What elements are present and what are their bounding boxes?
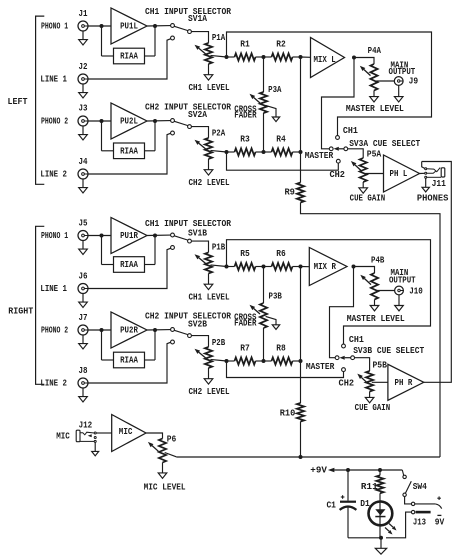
switch SW4 contact 2	[403, 493, 406, 496]
switch SV1B common	[188, 239, 192, 243]
potentiometer P6 (mic level)	[159, 439, 166, 463]
op-amp PU1L	[111, 8, 147, 44]
wire	[94, 442, 96, 451]
wire	[405, 497, 412, 504]
svg-text:P5A: P5A	[367, 149, 382, 160]
svg-text:R3: R3	[240, 134, 250, 145]
svg-text:CH1 LEVEL: CH1 LEVEL	[189, 82, 230, 93]
capacitor C1	[340, 501, 356, 503]
P5A wiper arrow	[355, 165, 361, 171]
wire	[191, 336, 208, 347]
P4A wiper arrow	[364, 70, 371, 76]
wire	[88, 39, 171, 79]
wire	[147, 25, 171, 27]
op-amp MIC	[112, 415, 146, 452]
node CH2 cue contact	[342, 368, 346, 372]
svg-text:J7: J7	[79, 312, 88, 323]
ground	[204, 170, 213, 175]
wire	[348, 149, 364, 158]
node crossfader junction	[262, 265, 266, 269]
svg-text:CH1: CH1	[349, 334, 364, 345]
ground	[82, 126, 84, 135]
svg-text:CH2: CH2	[339, 378, 355, 389]
svg-text:R9: R9	[284, 187, 295, 198]
ground	[422, 187, 429, 192]
RIAA feedback network PU2R	[114, 352, 145, 368]
P1A wiper	[211, 55, 227, 57]
P2A wiper	[211, 150, 227, 152]
wire	[263, 113, 265, 152]
jack J9 (main output)	[394, 77, 403, 86]
P1B wiper arrow	[199, 258, 206, 264]
ground (supply)	[375, 548, 386, 554]
battery connector J13 + contact	[411, 502, 414, 505]
svg-text:MIC: MIC	[119, 426, 133, 437]
svg-text:C1: C1	[326, 499, 336, 510]
resistor R9	[297, 183, 304, 203]
wire	[191, 241, 208, 252]
label - (battery)	[437, 514, 441, 516]
switch SV1A common	[188, 30, 192, 34]
ground	[272, 325, 279, 330]
P2A wiper arrow	[199, 143, 206, 149]
svg-text:MASTER LEVEL: MASTER LEVEL	[346, 103, 404, 114]
switch SV2A contact 1	[171, 119, 175, 123]
node output PU2R	[153, 328, 157, 332]
node CH1 cue contact	[336, 136, 340, 140]
LED D1	[369, 502, 393, 526]
op-amp PH L	[384, 155, 420, 192]
svg-text:MIX R: MIX R	[314, 261, 337, 272]
node MIX R output	[352, 265, 356, 269]
ground	[204, 75, 213, 80]
svg-text:R7: R7	[240, 343, 250, 354]
node output PU1L	[153, 24, 157, 28]
potentiometer P2B	[205, 347, 212, 368]
resistor R1	[235, 53, 256, 60]
ground	[82, 31, 84, 40]
svg-text:PU1R: PU1R	[120, 230, 138, 241]
wire	[191, 127, 208, 138]
jack J10 (main output)	[395, 286, 404, 295]
node wiper junction	[225, 265, 229, 269]
node master bus	[299, 265, 303, 269]
P6 wiper arrow	[152, 446, 158, 452]
svg-text:J13: J13	[413, 516, 426, 527]
svg-text:PHONO 2: PHONO 2	[41, 116, 68, 127]
wire	[380, 538, 382, 549]
wire	[293, 360, 301, 362]
node input PU1L	[100, 24, 104, 28]
wire	[264, 266, 272, 268]
wire (CH1 cue feed)	[227, 32, 432, 136]
wire	[256, 151, 264, 153]
svg-text:SV1B: SV1B	[188, 228, 207, 239]
D1 diode	[375, 509, 385, 515]
switch SV2B contact 2	[171, 340, 175, 344]
ground	[370, 306, 379, 311]
node C1 tap	[346, 468, 350, 472]
svg-text:RIGHT: RIGHT	[8, 306, 33, 317]
P3A wiper arrow	[254, 97, 260, 103]
ground	[204, 284, 213, 289]
wire	[256, 56, 264, 58]
resistor R3	[235, 148, 256, 155]
wire	[300, 422, 302, 458]
wire	[191, 32, 208, 43]
wire	[386, 512, 411, 538]
switch SW4 blade	[405, 481, 411, 493]
switch SV1A blade	[174, 26, 188, 30]
ground	[92, 451, 99, 455]
switch SV3A contact MASTER	[329, 147, 333, 151]
node CH1 cue contact	[342, 344, 346, 348]
node wiper junction	[225, 359, 229, 363]
svg-text:J6: J6	[79, 271, 88, 282]
wire	[263, 57, 265, 92]
jack J11 contact 1	[425, 168, 427, 170]
switch SV3B blade	[345, 357, 351, 359]
wire	[264, 56, 272, 58]
svg-text:PHONO 1: PHONO 1	[41, 230, 69, 241]
svg-text:P3B: P3B	[269, 291, 283, 302]
P4A wiper	[376, 80, 394, 82]
node master bus	[299, 55, 303, 59]
ground	[365, 397, 374, 402]
wire	[145, 55, 156, 57]
svg-text:D1: D1	[360, 498, 370, 509]
svg-text:SV2A: SV2A	[188, 109, 207, 120]
svg-text:P2A: P2A	[212, 128, 226, 139]
potentiometer P3B (cross fader)	[260, 303, 267, 328]
C1 plus sign	[341, 496, 345, 498]
wire	[145, 359, 156, 361]
jack J11 ring spring	[427, 171, 436, 173]
P1B wiper	[211, 265, 227, 267]
wire	[101, 26, 103, 56]
wire	[208, 159, 210, 170]
ground	[204, 379, 213, 384]
wire	[88, 329, 111, 331]
node mic bus	[299, 455, 303, 459]
resistor R5	[235, 263, 256, 270]
wire	[101, 236, 103, 265]
wire (+9V rail)	[334, 469, 402, 471]
P3B wiper	[266, 316, 276, 324]
resistor R6	[272, 263, 293, 270]
wire	[208, 64, 210, 75]
resistor R8	[272, 357, 293, 364]
node wiper junction	[225, 150, 229, 154]
svg-text:CUE GAIN: CUE GAIN	[350, 192, 386, 203]
potentiometer P1B	[205, 252, 212, 273]
node output PU2L	[153, 119, 157, 123]
wire	[264, 151, 272, 153]
jack J12 contact 3	[94, 440, 96, 442]
wire	[263, 267, 265, 304]
group bracket LEFT	[36, 16, 45, 184]
wire	[398, 295, 400, 306]
node master bus	[299, 359, 303, 363]
wire	[300, 361, 302, 403]
switch SV2B contact 1	[171, 328, 175, 332]
node CH2 cue contact	[336, 159, 340, 163]
svg-text:P1A: P1A	[212, 32, 226, 43]
wire (master cue feed)	[330, 267, 354, 358]
ground	[395, 306, 404, 311]
wire (master bus left)	[300, 57, 302, 152]
svg-text:CH2 LEVEL: CH2 LEVEL	[189, 386, 230, 397]
svg-text:R11: R11	[361, 481, 378, 492]
resistor R11	[376, 475, 383, 493]
svg-text:MASTER: MASTER	[306, 361, 335, 372]
svg-text:PH L: PH L	[390, 168, 408, 179]
switch SV3A blade	[339, 148, 344, 150]
wire	[373, 91, 375, 97]
svg-text:R1: R1	[240, 39, 250, 50]
P4B wiper arrow	[364, 279, 371, 285]
jack J11 contact 3	[425, 176, 427, 178]
wire	[301, 56, 311, 58]
svg-text:RIAA: RIAA	[120, 145, 138, 156]
switch SV3B common	[351, 356, 355, 360]
wire	[293, 151, 301, 153]
svg-text:R4: R4	[276, 134, 286, 145]
svg-text:PU2L: PU2L	[120, 116, 138, 127]
jack J11 tip path	[422, 162, 425, 169]
potentiometer P3A (cross fader)	[260, 92, 267, 113]
wire	[227, 56, 235, 58]
jack J8 (line input)	[78, 378, 88, 388]
svg-text:9V: 9V	[435, 516, 445, 527]
wire	[379, 470, 381, 475]
svg-text:PU2R: PU2R	[120, 325, 138, 336]
wire	[355, 358, 370, 371]
svg-text:LINE 1: LINE 1	[40, 283, 67, 294]
svg-text:MIC LEVEL: MIC LEVEL	[144, 481, 186, 492]
svg-text:J3: J3	[79, 103, 88, 114]
wire	[145, 150, 156, 152]
node master bus	[299, 150, 303, 154]
wire	[227, 151, 235, 153]
P6 wiper	[165, 453, 177, 457]
P4B wiper	[377, 290, 395, 292]
wire	[369, 392, 371, 398]
wire	[301, 266, 310, 268]
wire (master bus right)	[300, 267, 302, 362]
svg-text:PU1L: PU1L	[120, 21, 138, 32]
svg-text:SV1A: SV1A	[188, 13, 207, 24]
wire	[293, 266, 301, 268]
jack J1	[78, 21, 88, 31]
wire	[379, 493, 381, 538]
node LED ground junction	[379, 536, 383, 540]
svg-text:P6: P6	[167, 433, 177, 444]
wire	[88, 342, 171, 383]
svg-text:CH1 LEVEL: CH1 LEVEL	[189, 291, 230, 302]
op-amp PU2R	[111, 312, 147, 348]
wire	[354, 58, 374, 65]
ground	[158, 473, 167, 478]
wire	[162, 463, 164, 473]
group bracket RIGHT	[36, 226, 45, 384]
P5B wiper arrow	[361, 377, 367, 383]
svg-text:PHONO 2: PHONO 2	[41, 325, 68, 336]
wire	[227, 266, 235, 268]
wire	[347, 470, 349, 501]
wire	[96, 432, 112, 434]
node R11 tap	[378, 468, 382, 472]
svg-text:P3A: P3A	[268, 84, 282, 95]
wire	[256, 360, 264, 362]
ground	[370, 97, 379, 102]
wire	[147, 120, 171, 122]
wire	[293, 56, 301, 58]
wire	[354, 267, 375, 274]
jack J12 contact 2	[94, 437, 96, 439]
wire	[101, 121, 103, 151]
P3A wiper	[266, 105, 276, 117]
jack J2 (line input)	[78, 74, 88, 84]
jack J11 plug	[441, 168, 445, 177]
jack J7	[78, 325, 88, 335]
svg-text:P1B: P1B	[212, 241, 226, 252]
svg-text:R2: R2	[276, 39, 286, 50]
switch SV2A common	[188, 125, 192, 129]
P5A wiper	[365, 173, 383, 175]
jack J12 contact 1	[94, 432, 96, 434]
wire	[256, 266, 264, 268]
ground	[82, 84, 84, 93]
op-amp PU1R	[111, 218, 147, 254]
RIAA feedback network PU1R	[114, 257, 145, 273]
D1 light arrows	[389, 524, 393, 528]
svg-text:SW4: SW4	[413, 481, 428, 492]
node input PU2L	[100, 119, 104, 123]
switch SV1A contact 1	[171, 24, 175, 28]
+9V tag arrow	[328, 468, 335, 473]
P2B wiper arrow	[199, 352, 206, 358]
node wiper junction	[225, 55, 229, 59]
wire	[362, 182, 364, 188]
node input PU1R	[100, 234, 104, 238]
node input PU2R	[100, 328, 104, 332]
RIAA feedback network PU2L	[114, 143, 145, 159]
wire	[374, 300, 376, 306]
svg-text:CH2 LEVEL: CH2 LEVEL	[189, 177, 230, 188]
svg-text:SV3B CUE SELECT: SV3B CUE SELECT	[353, 345, 424, 356]
svg-text:LINE 2: LINE 2	[40, 169, 67, 180]
svg-text:LINE 2: LINE 2	[40, 378, 67, 389]
wire	[146, 433, 163, 439]
wire (mic bus)	[176, 456, 440, 458]
jack J12 sleeve	[80, 440, 94, 442]
jack J11 sleeve	[427, 176, 441, 178]
svg-text:P4A: P4A	[368, 45, 382, 56]
RIAA feedback network PU1L	[114, 48, 145, 64]
jack J3	[78, 116, 88, 126]
potentiometer P4B (master level)	[371, 273, 378, 300]
wire	[420, 172, 425, 174]
svg-text:J4: J4	[79, 156, 88, 167]
svg-text:+9V: +9V	[310, 465, 327, 476]
svg-text:J1: J1	[79, 8, 88, 19]
wire	[88, 248, 171, 288]
wire	[227, 360, 235, 362]
op-amp MIX R	[309, 248, 347, 286]
wire (CH2 cue feed)	[227, 152, 339, 170]
P3B wiper arrow	[254, 308, 260, 314]
ground	[394, 97, 403, 102]
jack J11 contact 2	[425, 172, 427, 174]
svg-text:FADER: FADER	[234, 110, 257, 121]
svg-text:J12: J12	[79, 419, 93, 430]
wire (master cue feed)	[322, 58, 355, 149]
wire	[301, 203, 441, 458]
switch SV1B blade	[174, 236, 188, 240]
wire	[88, 133, 171, 174]
wire	[300, 152, 302, 183]
svg-text:J8: J8	[79, 365, 88, 376]
ground	[82, 179, 84, 188]
potentiometer P5B (cue gain)	[366, 371, 373, 392]
op-amp MIX L	[311, 38, 345, 78]
wire	[398, 85, 400, 96]
label + (battery)	[437, 497, 441, 499]
wire	[264, 360, 272, 362]
wire	[147, 234, 171, 236]
switch SV1B contact 2	[171, 246, 175, 250]
J13 - terminal bar	[416, 511, 431, 514]
svg-text:CUE GAIN: CUE GAIN	[355, 402, 391, 413]
ground	[82, 388, 84, 397]
svg-text:OUTPUT: OUTPUT	[389, 275, 416, 286]
node crossfader junction	[262, 359, 266, 363]
svg-text:MIX L: MIX L	[313, 54, 336, 65]
P5B wiper	[372, 381, 388, 383]
switch SW4 contact	[403, 475, 406, 478]
node crossfader junction	[262, 150, 266, 154]
svg-text:MASTER LEVEL: MASTER LEVEL	[347, 313, 405, 324]
svg-text:J11: J11	[432, 178, 447, 189]
jack J5	[78, 231, 88, 241]
op-amp PU2L	[111, 103, 147, 139]
wire	[347, 508, 349, 538]
svg-text:J2: J2	[79, 61, 88, 72]
switch SV2A contact 2	[171, 131, 175, 135]
potentiometer P5A (cue gain)	[360, 158, 367, 182]
P1A wiper arrow	[199, 48, 206, 54]
svg-text:P2B: P2B	[212, 337, 226, 348]
svg-text:LINE 1: LINE 1	[40, 74, 67, 85]
jack J12 plug	[76, 430, 80, 442]
jack J4 (line input)	[78, 169, 88, 179]
wire (CH1 cue feed)	[227, 240, 431, 344]
wire	[101, 330, 103, 360]
wire (CH2 cue feed)	[227, 361, 344, 378]
switch SV3A common	[344, 147, 348, 151]
node output PU1R	[153, 234, 157, 238]
wire	[88, 120, 111, 122]
switch SV2B common	[188, 334, 192, 338]
jack J6 (line input)	[78, 284, 88, 294]
svg-text:P4B: P4B	[371, 255, 385, 266]
wire	[88, 235, 111, 237]
wire (phones R feed)	[422, 162, 452, 383]
resistor R2	[272, 53, 293, 60]
battery connector J13 - contact	[411, 510, 414, 513]
node MIX L output	[352, 56, 356, 60]
